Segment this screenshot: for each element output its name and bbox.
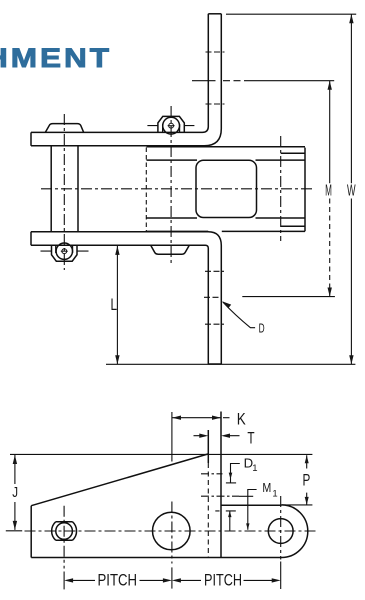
svg-text:K: K: [237, 410, 247, 429]
K stub: [223, 417, 230, 419]
inner plate lower edge top: [147, 159, 306, 161]
K arrows: [172, 416, 221, 420]
plate bottom edge: [31, 557, 281, 559]
hole H2 circle: [153, 512, 191, 550]
cotter P2 inner stubs: [163, 124, 180, 132]
tab left edge hidden part: [207, 463, 209, 558]
bottom plate left end cap: [30, 232, 32, 246]
hole H2 vertical centerline: [171, 502, 173, 564]
cotter P1 inner circle: [62, 249, 67, 254]
dim PITCH1 line and arrows: [70, 579, 166, 581]
plate slant top edge: [31, 454, 208, 506]
bottom tab bend mark 2: [205, 323, 224, 325]
dim K line: [172, 417, 221, 419]
hole H3 circle: [268, 519, 293, 544]
pin P2 head dome (bottom): [151, 245, 190, 254]
inner plate upper edge bottom: [147, 217, 306, 219]
D1 arrow: [229, 473, 233, 480]
dim W/L bottom ext line: [106, 363, 355, 365]
plate rounded end arc: [282, 505, 308, 558]
heading ATTACHMENT (cropped): [0, 45, 112, 72]
hole H3 vertical centerline: [280, 496, 282, 560]
inner link strip bottom edge: [147, 230, 306, 232]
V3 arrow up: [228, 511, 231, 517]
cotter P2 inner circle: [169, 123, 174, 128]
attachment plate bottom edge with outer bend: [31, 14, 221, 146]
cotter P2 side ticks: [147, 125, 194, 127]
inner link hidden left end: [145, 148, 147, 232]
pin P1 head dome: [45, 124, 83, 133]
next link plate edges: [281, 153, 305, 226]
small dim tick D: [215, 510, 236, 512]
svg-text:D: D: [259, 320, 265, 335]
bottom plate bottom edge with inner bend: [31, 245, 208, 364]
svg-text:PITCH: PITCH: [204, 571, 242, 589]
bottom tab end cap: [208, 363, 221, 365]
cotter assembly pin P2 top: hood: [158, 116, 184, 132]
top tab bend mark 2: [206, 103, 225, 105]
bottom plate top edge with bend to down tab: [31, 232, 221, 364]
cotter assembly pin P1 bottom: hood: [52, 245, 78, 261]
attachment plate left end cap: [30, 132, 32, 145]
dim T arrows outside: [194, 435, 240, 437]
top tab bend mark 1: [206, 51, 225, 53]
dim P line: [306, 455, 308, 505]
top tab end cap: [208, 13, 221, 15]
chain centerline: [41, 188, 315, 190]
P arrows: [305, 455, 309, 505]
svg-text:1: 1: [252, 463, 257, 474]
roller (rounded rect): [196, 160, 257, 217]
svg-text:L: L: [111, 295, 118, 314]
tab left edge solid part: [207, 430, 209, 463]
hole H2 ext tick down (pitch): [171, 567, 173, 588]
M arrows: [328, 81, 332, 297]
svg-text:P: P: [303, 471, 311, 489]
bottom tab mark M ext: [204, 296, 222, 298]
dim M top ext line: [192, 80, 216, 82]
tab hole centerline M1: [201, 495, 239, 497]
cotter P1 side ticks: [41, 250, 89, 252]
cotter P1 inner stubs: [56, 245, 73, 253]
hole H1 vertical centerline: [63, 506, 65, 569]
svg-text:PITCH: PITCH: [98, 571, 138, 589]
svg-text:M: M: [325, 183, 332, 200]
plate top right edge: [221, 504, 282, 506]
svg-text:M: M: [262, 480, 271, 495]
hole H1 chords: [56, 522, 73, 541]
bottom view chain centerline: [25, 530, 316, 532]
bottom tab bend mark 1: [205, 270, 224, 272]
pin P1 centerline: [63, 114, 65, 270]
hole H2 ext tick up (K): [171, 412, 173, 462]
svg-text:W: W: [347, 183, 356, 200]
tab hole centerline D1: [201, 473, 223, 475]
dim line L: [116, 246, 118, 364]
hole H1 inner circle: [56, 523, 73, 540]
dim line W: [350, 14, 352, 364]
small dim line V3: [229, 511, 231, 531]
hole H1 bushing: outer arcs: [52, 522, 77, 541]
svg-text:T: T: [247, 429, 254, 447]
leader D: [223, 302, 255, 328]
dim M1 ref tick: [239, 495, 253, 497]
top ext line (J/P): [10, 453, 312, 455]
P bottom ext line: [282, 504, 313, 506]
dim PITCH2 line and arrows: [178, 579, 274, 581]
W arrows: [349, 14, 353, 364]
dim W top ext line: [226, 13, 356, 15]
J bottom tick: [6, 530, 22, 532]
dim M1 corner leader: [248, 490, 257, 530]
tab right edge (ext up for K,T): [220, 412, 222, 558]
leader D arrowhead: [222, 301, 231, 308]
pin P1 shank left edge: [50, 146, 52, 232]
L arrows: [115, 246, 119, 364]
svg-text:1: 1: [272, 489, 277, 500]
dim line M: [329, 81, 331, 184]
dim J line: [14, 455, 16, 530]
pin P2 centerline: [170, 106, 172, 263]
inner link right end cap: [304, 148, 306, 232]
M1 arrow down: [246, 523, 249, 529]
J arrows: [13, 455, 17, 530]
dim M bottom ext line: [242, 296, 335, 298]
pin P1 shank right edge: [77, 146, 79, 232]
dim D1 corner leader: [231, 464, 240, 483]
svg-text:J: J: [12, 484, 18, 501]
dim D1 tick B: [226, 482, 236, 484]
cotter P1 outer circle: [56, 243, 72, 259]
cotter P2 outer circle: [163, 117, 180, 134]
plate left end cap: [30, 506, 32, 558]
pin P3 centerline: [280, 136, 282, 241]
inner link strip top edge: [147, 146, 306, 148]
attachment plate top edge with bend to up tab: [31, 14, 208, 133]
